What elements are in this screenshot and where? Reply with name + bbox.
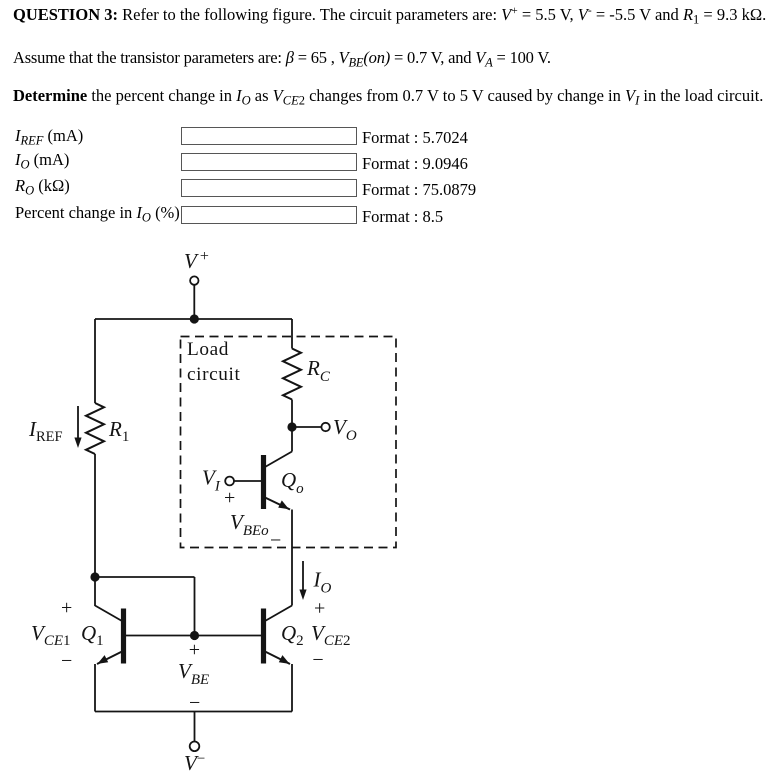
svg-text:Q1: Q1 — [81, 621, 104, 649]
svg-text:Q2: Q2 — [281, 621, 304, 649]
svg-text:VO: VO — [333, 415, 357, 444]
svg-text:+: + — [224, 487, 235, 509]
wire Q2 emitter down — [291, 664, 293, 712]
form row 1 format text — [362, 130, 468, 147]
svg-text:R1: R1 — [108, 417, 129, 445]
wire base rail Q1-Q2 — [126, 635, 262, 637]
svg-text:V+: V+ — [184, 248, 209, 273]
node dot VO — [287, 422, 296, 431]
svg-text:VBEo: VBEo — [230, 510, 269, 539]
wire top rail — [95, 318, 292, 320]
svg-text:−: − — [61, 650, 72, 672]
form row 3 format text — [362, 182, 476, 199]
form row 4 label Percent change in IO (%) — [15, 205, 180, 224]
svg-text:−: − — [189, 692, 200, 714]
wire down to base rail — [194, 577, 196, 636]
svg-text:IO: IO — [313, 568, 332, 597]
wire stub to V- terminal — [194, 712, 196, 742]
wire from V+ terminal down — [193, 285, 195, 319]
wire top rail down to RC — [291, 319, 293, 349]
transistor Q1 — [95, 606, 126, 665]
paragraph line 3 — [13, 88, 763, 107]
svg-text:VCE1: VCE1 — [31, 621, 71, 649]
node dot at V+ rail junction — [190, 314, 199, 323]
wire from Q1 collector node to base rail (horizontal) — [95, 576, 195, 578]
form row 3 label RO (kOhm) — [15, 178, 70, 197]
transistor Qo — [261, 452, 292, 510]
load circuit dashed box — [181, 337, 397, 548]
paragraph line 1 — [13, 6, 766, 26]
svg-text:+: + — [314, 598, 325, 620]
paragraph line 2 — [13, 50, 551, 69]
wire Qo emitter down to Q2 collector — [291, 510, 293, 606]
svg-text:VCE2: VCE2 — [311, 621, 351, 649]
arrow IO current direction — [302, 561, 304, 592]
svg-text:VI: VI — [202, 466, 221, 495]
terminal V- — [190, 742, 200, 752]
svg-text:VBE: VBE — [178, 659, 209, 688]
wire from Q1 collector node down to Q1 collector — [94, 577, 96, 606]
form row 1 input box — [181, 127, 357, 145]
terminal V+ — [190, 276, 198, 284]
wire left branch down to R1 — [94, 319, 96, 403]
wire R1 bottom down to Q1 collector junction — [94, 454, 96, 577]
transistor Q2 — [261, 606, 292, 665]
form row 4 input box — [181, 206, 357, 224]
form row 1 label IREF (mA) — [15, 128, 83, 147]
form row 4 format text — [362, 209, 443, 226]
wire VO node to terminal — [292, 426, 321, 428]
form row 2 label IO (mA) — [15, 152, 69, 171]
wire bottom rail — [95, 711, 292, 713]
terminal VO — [321, 423, 329, 431]
svg-text:−: − — [312, 649, 323, 671]
svg-text:circuit: circuit — [187, 364, 240, 385]
form row 2 input box — [181, 153, 357, 171]
svg-text:Qo: Qo — [281, 468, 304, 497]
resistor RC — [283, 349, 301, 400]
form row 2 format text — [362, 156, 468, 173]
form row 3 input box — [181, 179, 357, 197]
svg-text:Load: Load — [187, 339, 229, 360]
node dot on base rail — [190, 631, 199, 640]
svg-text:+: + — [189, 639, 200, 661]
svg-text:−: − — [270, 530, 281, 552]
svg-text:RC: RC — [306, 356, 331, 385]
svg-text:V−: V− — [184, 751, 205, 774]
svg-text:IREF: IREF — [28, 417, 63, 445]
arrow IREF current direction — [77, 406, 79, 440]
wire Q1 emitter down — [94, 664, 96, 712]
wire base of Qo — [234, 480, 261, 482]
wire VO node down to Qo collector — [291, 427, 293, 452]
svg-text:+: + — [61, 597, 72, 619]
wire RC bottom to VO node — [291, 400, 293, 428]
terminal VI — [225, 477, 234, 486]
node dot collector-base tie of Q1 — [90, 572, 99, 581]
resistor R1 — [86, 403, 104, 454]
